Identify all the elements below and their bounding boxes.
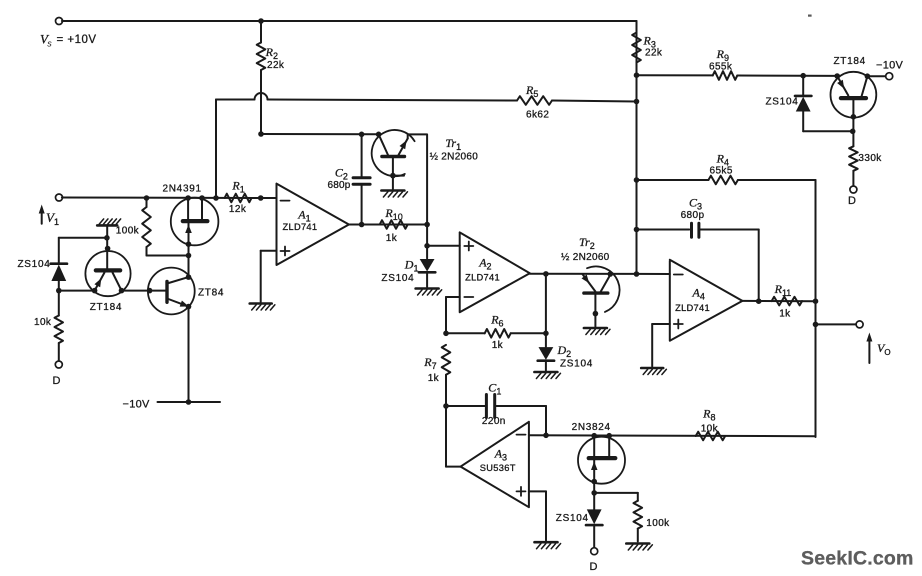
svg-text:D1: D1 bbox=[404, 258, 419, 274]
svg-text:R5: R5 bbox=[525, 83, 538, 99]
svg-text:10k: 10k bbox=[34, 317, 52, 328]
svg-text:ZT184: ZT184 bbox=[834, 56, 866, 67]
svg-text:R11: R11 bbox=[774, 282, 792, 298]
svg-text:D: D bbox=[590, 561, 598, 573]
svg-text:Tr1: Tr1 bbox=[445, 136, 461, 152]
svg-text:ZLD741: ZLD741 bbox=[283, 222, 318, 232]
svg-text:22k: 22k bbox=[267, 60, 285, 71]
svg-text:C1: C1 bbox=[488, 381, 501, 397]
svg-text:A3: A3 bbox=[494, 447, 507, 463]
svg-text:R10: R10 bbox=[384, 206, 402, 222]
svg-text:12k: 12k bbox=[229, 204, 247, 215]
svg-text:A4: A4 bbox=[692, 286, 705, 302]
svg-text:SeekIC.com: SeekIC.com bbox=[801, 548, 914, 570]
svg-text:A2: A2 bbox=[478, 256, 491, 272]
svg-text:R7: R7 bbox=[423, 355, 436, 371]
svg-text:655k: 655k bbox=[709, 62, 733, 73]
svg-text:R2: R2 bbox=[265, 45, 278, 61]
svg-text:s: s bbox=[47, 39, 52, 49]
svg-text:1k: 1k bbox=[492, 340, 504, 351]
svg-text:ZT184: ZT184 bbox=[90, 302, 122, 313]
svg-text:½ 2N2060: ½ 2N2060 bbox=[561, 252, 610, 263]
svg-text:−10V: −10V bbox=[876, 60, 904, 72]
svg-text:= +10V: = +10V bbox=[57, 34, 97, 46]
svg-text:680p: 680p bbox=[681, 210, 705, 221]
svg-text:−10V: −10V bbox=[123, 399, 151, 411]
svg-text:65k5: 65k5 bbox=[710, 166, 733, 177]
svg-text:6k62: 6k62 bbox=[526, 110, 549, 121]
svg-text:R1: R1 bbox=[231, 179, 244, 195]
svg-text:2N3824: 2N3824 bbox=[572, 422, 611, 433]
svg-text:1k: 1k bbox=[386, 233, 398, 244]
svg-text:680p: 680p bbox=[328, 180, 351, 191]
svg-text:R8: R8 bbox=[702, 407, 715, 423]
svg-text:10k: 10k bbox=[701, 424, 719, 435]
svg-text:R6: R6 bbox=[490, 313, 503, 329]
svg-text:SU536T: SU536T bbox=[480, 463, 516, 473]
svg-text:D: D bbox=[848, 195, 856, 207]
svg-text:ZT84: ZT84 bbox=[198, 287, 224, 298]
svg-text:330k: 330k bbox=[858, 153, 882, 164]
svg-text:ZS104: ZS104 bbox=[560, 359, 593, 370]
svg-text:ZS104: ZS104 bbox=[18, 259, 51, 270]
svg-text:100k: 100k bbox=[116, 226, 140, 237]
svg-text:½ 2N2060: ½ 2N2060 bbox=[430, 152, 479, 163]
svg-text:22k: 22k bbox=[645, 48, 663, 59]
svg-text:ZS104: ZS104 bbox=[766, 97, 799, 108]
svg-text:D2: D2 bbox=[557, 343, 572, 359]
svg-text:100k: 100k bbox=[646, 518, 670, 529]
svg-text:2N4391: 2N4391 bbox=[163, 184, 202, 195]
svg-text:VO: VO bbox=[877, 341, 891, 357]
svg-text:ZLD741: ZLD741 bbox=[675, 303, 710, 313]
svg-text:ZS104: ZS104 bbox=[556, 513, 589, 524]
svg-text:1k: 1k bbox=[779, 309, 791, 320]
svg-text:ZS104: ZS104 bbox=[381, 273, 414, 284]
svg-text:Tr2: Tr2 bbox=[579, 235, 595, 251]
svg-text:220n: 220n bbox=[482, 416, 506, 427]
svg-text:D: D bbox=[53, 375, 61, 387]
svg-text:V1: V1 bbox=[46, 210, 59, 227]
svg-text:ZLD741: ZLD741 bbox=[465, 272, 500, 282]
svg-text:1k: 1k bbox=[428, 373, 440, 384]
